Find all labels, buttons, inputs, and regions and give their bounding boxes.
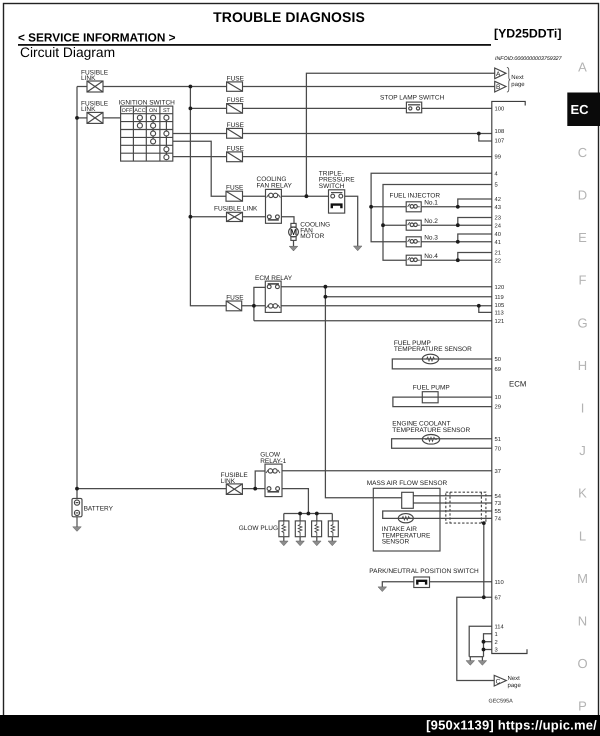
wire FL3 feed	[190, 216, 226, 218]
svg-text:FUSE: FUSE	[227, 122, 245, 129]
svg-text:ON: ON	[149, 108, 157, 114]
svg-text:51: 51	[495, 437, 501, 443]
svg-text:70: 70	[495, 445, 501, 452]
svg-text:LINK: LINK	[81, 106, 96, 113]
svg-text:10: 10	[495, 394, 501, 401]
sidebar section letters	[577, 60, 588, 714]
wire MAF element to ECM pin 73	[413, 502, 492, 504]
svg-text:Circuit Diagram: Circuit Diagram	[20, 45, 115, 60]
wire branch to ECM pin 119	[325, 296, 491, 298]
next page arrow A	[495, 68, 506, 79]
wire FL2 output to ignition switch	[103, 117, 121, 119]
next page brace	[507, 67, 510, 92]
glow relay-1 box	[265, 464, 282, 497]
wire battery bus vertical	[76, 87, 78, 499]
svg-text:2: 2	[495, 639, 498, 646]
ignition switch contact circles ST column	[164, 115, 169, 160]
svg-text:D: D	[578, 188, 587, 203]
fuse F4	[227, 152, 243, 162]
wire ground tie bar	[469, 656, 483, 658]
svg-text:RELAY-1: RELAY-1	[260, 458, 286, 465]
svg-text:40: 40	[495, 231, 501, 238]
wire FL3 output to cooling fan relay contact	[243, 216, 266, 218]
fuel pump	[422, 392, 438, 403]
svg-text:MOTOR: MOTOR	[300, 233, 324, 240]
fuse F1	[227, 82, 243, 91]
next page arrow C	[494, 675, 506, 686]
svg-text:50: 50	[495, 356, 501, 363]
wire injector No.1 to ECM pins 42/43	[421, 206, 492, 208]
junction dot bus at fuse2 wire	[189, 107, 193, 111]
svg-text:TROUBLE DIAGNOSIS: TROUBLE DIAGNOSIS	[213, 9, 365, 25]
glow plug 1	[279, 521, 289, 537]
junction dot glow bus plug2	[298, 512, 302, 516]
wire ignition ACC to fuse 3	[173, 133, 227, 135]
svg-text:C: C	[578, 145, 587, 160]
ignition switch contact circles ON column	[151, 115, 156, 144]
svg-text:N: N	[578, 613, 587, 628]
svg-text:119: 119	[495, 294, 504, 301]
ground symbol ECM pin 114	[466, 661, 475, 666]
junction dot glow bus plug3	[315, 512, 319, 516]
wire glow plug 2 drop	[299, 514, 301, 521]
svg-text:42: 42	[495, 196, 501, 203]
junction dot pin2	[482, 640, 486, 644]
wire glow plug 1 ground lead	[283, 537, 285, 541]
ignition switch table grid	[121, 106, 173, 161]
junction dot drain to pin67 wire	[482, 595, 486, 599]
svg-text:LINK: LINK	[221, 478, 236, 485]
svg-text:PARK/NEUTRAL POSITION SWITCH: PARK/NEUTRAL POSITION SWITCH	[369, 568, 479, 575]
wire motor to ground	[293, 240, 295, 246]
glow relay-1 contact	[267, 487, 279, 492]
wire fuse 2 output to stop lamp switch	[243, 107, 407, 109]
svg-text:FUSIBLE LINK: FUSIBLE LINK	[214, 205, 258, 212]
wire ECM pin 67 to next-page arrow C	[457, 597, 494, 680]
wire fuel pump temperature sensor loop pins 50/69	[392, 359, 492, 369]
ground symbol glow plug 4	[328, 541, 337, 546]
wire glow plug 3 ground lead	[316, 537, 318, 541]
ground symbol ECM pins 1/2/3	[478, 661, 487, 666]
wire fusible link 2 feed	[77, 117, 87, 119]
glow relay-1 coil	[266, 469, 280, 473]
svg-text:C: C	[496, 678, 501, 685]
junction dot injector bus pin4 No.1	[369, 205, 373, 209]
svg-text:G: G	[577, 315, 587, 330]
svg-text:No.4: No.4	[424, 253, 438, 260]
header rule	[18, 44, 491, 46]
svg-text:OFF: OFF	[122, 108, 133, 114]
junction dot battery branch	[75, 487, 79, 491]
fuel injector No.1	[406, 202, 421, 212]
wire cooling fan relay coil to triple-pressure switch	[281, 195, 328, 197]
svg-text:No.2: No.2	[424, 218, 438, 225]
wire ECM relay coil control to ECM pin 121	[254, 320, 492, 322]
intake air temperature sensor element	[398, 514, 413, 523]
svg-text:B: B	[496, 84, 500, 91]
junction dot glow relay feed	[253, 487, 257, 491]
ignition switch contact circles ACC column	[137, 115, 142, 128]
wire glow plug 2 ground lead	[299, 537, 301, 541]
cooling fan relay box	[266, 189, 282, 223]
svg-text:121: 121	[495, 318, 505, 325]
svg-text:A: A	[496, 71, 501, 78]
svg-text:ECM: ECM	[509, 380, 526, 389]
junction dot pin108 branch	[477, 132, 481, 136]
wire ECM pin 5 injector feed bus	[383, 185, 492, 261]
glow plug 2	[295, 521, 305, 537]
junction dot injector bus pin5 No.2	[381, 223, 385, 227]
svg-text:FUSE: FUSE	[227, 145, 245, 152]
svg-text:No.1: No.1	[424, 199, 438, 206]
svg-text:114: 114	[495, 624, 505, 630]
wire glow plug 3 drop	[316, 514, 318, 521]
ground symbol triple-pressure switch	[353, 246, 362, 251]
svg-text:I: I	[581, 401, 585, 416]
svg-text:GLOW PLUG: GLOW PLUG	[239, 525, 278, 532]
svg-text:LINK: LINK	[81, 75, 96, 82]
wire glow plug 1 drop	[283, 514, 285, 521]
wire park/neutral switch to ECM pin 110	[430, 581, 492, 583]
wire ignition ON to fuse 5	[173, 141, 226, 196]
wire fuse 3 output to ECM pin 108	[243, 133, 492, 135]
wire branch to ECM pin 107	[479, 134, 492, 142]
junction dot ECM relay fuse tap	[252, 304, 256, 308]
svg-text:INFOID:0000000003759327: INFOID:0000000003759327	[495, 56, 563, 62]
wire glow plug bus	[284, 513, 333, 515]
wire injector No.1 feed	[371, 206, 406, 208]
fuse F6	[226, 301, 242, 311]
junction dot relay bus pin119	[324, 295, 328, 299]
svg-text:FUEL PUMP: FUEL PUMP	[413, 384, 450, 391]
wire fuse 4 output to ECM pin 99	[243, 156, 492, 158]
wire ECM relay contact output to ECM pin 120	[281, 286, 492, 288]
glow plug 3	[312, 521, 322, 537]
park/neutral position switch	[414, 577, 430, 588]
wire fuse 2 feed	[190, 107, 226, 109]
wire glow relay contact to glow plug bus	[282, 489, 308, 514]
wire fuse 1 output to next-page arrow B	[243, 86, 495, 88]
mass air flow sensor box	[373, 488, 440, 551]
ECM box outline	[492, 101, 527, 653]
sidebar EC tab	[567, 93, 600, 127]
svg-text:FUSE: FUSE	[227, 97, 245, 104]
fuse F5	[226, 191, 243, 201]
svg-text:69: 69	[495, 366, 501, 373]
svg-text:Next: Next	[508, 675, 521, 682]
cooling fan relay contact	[267, 215, 279, 220]
svg-text:37: 37	[495, 468, 501, 475]
junction dot injector No.3 output	[456, 240, 460, 244]
junction dot injector No.2 output	[456, 223, 460, 227]
svg-text:23: 23	[495, 215, 501, 222]
wire park/neutral switch ground lead	[382, 582, 414, 587]
svg-text:67: 67	[495, 594, 501, 601]
ground symbol glow plug 1	[280, 541, 289, 546]
wire ignition ST to fuse 4	[173, 156, 227, 158]
wire ECM pin 114 ground drop	[469, 626, 492, 657]
wire ground stems	[469, 657, 471, 661]
svg-text:[950x1139] https://upic.me/: [950x1139] https://upic.me/	[426, 718, 597, 733]
svg-text:FUSE: FUSE	[226, 294, 244, 301]
wire fuel pump loop pins 10/29	[393, 397, 492, 407]
svg-text:74: 74	[495, 517, 502, 523]
svg-text:41: 41	[495, 240, 501, 246]
junction dot injector No.4 output	[456, 258, 460, 262]
junction dot FL2 tap	[75, 116, 79, 120]
svg-text:TEMPERATURE SENSOR: TEMPERATURE SENSOR	[392, 427, 470, 434]
wire glow plug 4 drop	[331, 514, 333, 521]
wire fuse 6 output to ECM relay coil	[242, 305, 266, 307]
next page arrow B	[495, 81, 506, 92]
battery	[72, 498, 82, 526]
wire branch to ECM pin 113	[479, 306, 492, 313]
fusible link FL4	[226, 484, 242, 495]
svg-text:EC: EC	[570, 102, 589, 117]
fuel injector No.3	[406, 237, 421, 247]
wire ECM relay coil to ECM pin 105	[281, 305, 492, 307]
svg-text:P: P	[578, 699, 587, 714]
svg-text:M: M	[577, 571, 588, 586]
svg-text:24: 24	[495, 222, 502, 229]
svg-text:FUSE: FUSE	[227, 75, 245, 82]
ECM relay box	[265, 281, 281, 312]
engine coolant temperature sensor element	[422, 435, 439, 445]
svg-text:IGNITION SWITCH: IGNITION SWITCH	[119, 99, 176, 106]
wire injector No.3 to ECM pins 40/41	[421, 241, 492, 243]
svg-text:No.3: No.3	[424, 234, 438, 241]
wire FL4 output to glow relay contact	[242, 488, 265, 490]
svg-text:FAN RELAY: FAN RELAY	[257, 182, 293, 189]
svg-text:105: 105	[495, 302, 505, 309]
svg-text:21: 21	[495, 250, 501, 257]
wire injector No.2 to ECM pins 23/24	[421, 224, 492, 226]
wire MAF element to ECM pin 54	[413, 495, 492, 497]
svg-text:K: K	[578, 486, 587, 501]
wire FL1 output to fuse 1	[103, 86, 227, 88]
glow plug 4	[328, 521, 338, 537]
junction dot bus at fuse1 wire	[189, 85, 193, 89]
svg-text:GEC595A: GEC595A	[489, 699, 514, 705]
shielded harness dashed box	[446, 492, 486, 523]
wire ECM pins 1/2/3 ground drop	[484, 634, 492, 657]
ground symbol park/neutral switch	[378, 587, 387, 592]
svg-text:MASS AIR FLOW SENSOR: MASS AIR FLOW SENSOR	[367, 480, 448, 487]
wire injector No.4 to ECM pins 21/22	[421, 259, 492, 261]
svg-text:99: 99	[495, 154, 501, 161]
svg-text:107: 107	[495, 138, 505, 145]
svg-text:BATTERY: BATTERY	[84, 505, 114, 512]
svg-text:1: 1	[495, 632, 498, 638]
wire glow relay coil feed riser	[255, 471, 265, 489]
wire glow plug 4 ground lead	[331, 537, 333, 541]
svg-text:54: 54	[495, 494, 502, 500]
fusible link FL1	[87, 81, 103, 92]
wire injector No.2 feed	[383, 224, 406, 226]
wire ECM relay contact feed riser	[254, 287, 265, 320]
svg-text:ST: ST	[163, 108, 171, 114]
junction dot pin3	[482, 648, 486, 652]
wire fusible link 1 feed	[77, 86, 87, 88]
svg-text:page: page	[508, 683, 522, 689]
wire bus from FL1 output down to fuse 6	[190, 87, 226, 306]
svg-text:100: 100	[495, 105, 505, 112]
fuel injector No.2	[406, 220, 421, 230]
svg-text:O: O	[577, 656, 587, 671]
svg-text:J: J	[579, 443, 586, 458]
triple-pressure switch	[329, 190, 345, 213]
wire shield drain	[483, 523, 485, 597]
svg-text:STOP LAMP SWITCH: STOP LAMP SWITCH	[380, 95, 445, 102]
fuel injector No.4	[406, 255, 421, 265]
wire ECM pin 2 stub	[484, 641, 492, 643]
svg-text:ACC: ACC	[134, 108, 145, 114]
wire stop lamp switch to ECM pin 100	[422, 107, 492, 109]
svg-text:H: H	[578, 358, 587, 373]
svg-text:3: 3	[495, 647, 498, 654]
stop lamp switch	[406, 102, 421, 113]
ECM relay contact	[267, 284, 279, 289]
svg-text:22: 22	[495, 257, 501, 264]
mass air flow sensor element	[402, 492, 414, 508]
ECM relay coil	[266, 304, 280, 308]
fuse F3	[227, 128, 243, 138]
cooling fan relay coil	[267, 193, 281, 197]
svg-text:110: 110	[495, 579, 504, 586]
wire ECM pin 3 stub	[484, 649, 492, 651]
fusible link FL2	[87, 112, 103, 123]
wire intake air temp sensor loop pins 55/74	[383, 511, 492, 518]
svg-text:29: 29	[495, 404, 501, 411]
cooling fan motor	[289, 223, 299, 240]
svg-text:73: 73	[495, 500, 501, 507]
svg-text:5: 5	[495, 183, 498, 189]
svg-text:M: M	[290, 227, 297, 237]
fuse F2	[227, 104, 243, 114]
svg-text:120: 120	[495, 284, 505, 291]
svg-text:FUSE: FUSE	[226, 185, 244, 192]
svg-text:108: 108	[495, 128, 505, 135]
svg-text:A: A	[578, 60, 587, 75]
fuel pump temperature sensor element	[422, 354, 438, 364]
ground symbol cooling fan motor	[289, 246, 298, 251]
svg-text:SWITCH: SWITCH	[319, 183, 345, 190]
ground symbol glow plug 3	[313, 541, 322, 546]
junction dot pin113 branch	[477, 304, 481, 308]
junction dot relay bus pin120	[324, 285, 328, 289]
svg-text:L: L	[579, 528, 586, 543]
svg-text:page: page	[511, 82, 525, 88]
svg-text:Next: Next	[511, 74, 524, 81]
fusible link FL3	[227, 212, 243, 221]
svg-text:113: 113	[495, 310, 504, 317]
svg-text:43: 43	[495, 204, 501, 211]
wire cooling fan relay contact to motor	[281, 217, 294, 224]
junction dot relay coil to TPS	[305, 194, 309, 198]
junction dot shield drain	[482, 521, 486, 525]
svg-text:[YD25DDTi]: [YD25DDTi]	[494, 27, 561, 41]
svg-text:E: E	[578, 230, 587, 245]
wire battery branch to FL4	[77, 488, 226, 490]
wire main relay bus down to mass air flow sensor	[325, 287, 401, 498]
svg-text:55: 55	[495, 509, 501, 515]
wire ECM pin 4 injector feed bus	[371, 173, 492, 242]
watermark bar	[0, 715, 600, 736]
svg-text:TEMPERATURE SENSOR: TEMPERATURE SENSOR	[394, 346, 472, 353]
wire triple-pressure switch to ground	[345, 196, 358, 246]
wire engine coolant temperature sensor loop pins 51/70	[392, 439, 492, 449]
junction dot injector No.1 output	[456, 205, 460, 209]
wire fuse 5 output to cooling fan relay coil	[243, 195, 266, 197]
svg-text:SENSOR: SENSOR	[382, 539, 410, 546]
ground symbol glow plug 2	[296, 541, 305, 546]
svg-text:F: F	[579, 273, 587, 288]
junction dot glow bus feed	[307, 512, 311, 516]
ground symbol below battery	[73, 527, 82, 532]
svg-text:ECM RELAY: ECM RELAY	[255, 275, 293, 282]
wire bus node to next-page arrow A	[306, 73, 494, 196]
wire glow relay coil to ECM pin 37	[282, 470, 492, 472]
junction dot bus at FL3 wire	[189, 215, 193, 219]
svg-text:< SERVICE INFORMATION >: < SERVICE INFORMATION >	[18, 31, 176, 45]
